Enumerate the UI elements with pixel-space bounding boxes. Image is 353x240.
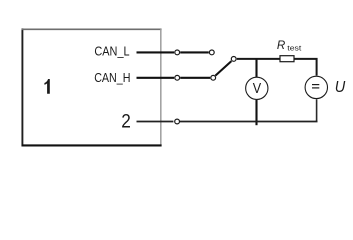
svg-text:2: 2 [121, 112, 131, 133]
svg-text:U: U [335, 79, 346, 96]
svg-text:CAN_L: CAN_L [94, 44, 129, 59]
svg-text:R: R [277, 38, 286, 52]
svg-text:CAN_H: CAN_H [94, 70, 130, 85]
svg-text:test: test [287, 44, 302, 53]
svg-text:V: V [253, 81, 262, 97]
